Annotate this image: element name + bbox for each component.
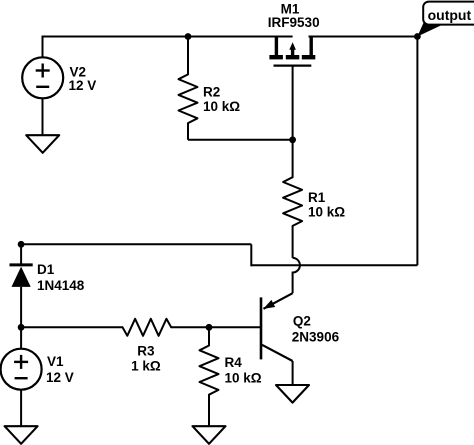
svg-text:12 V: 12 V <box>69 78 97 93</box>
ground below V2 <box>26 135 59 153</box>
svg-text:2N3906: 2N3906 <box>292 330 340 345</box>
svg-text:10 kΩ: 10 kΩ <box>308 204 345 219</box>
svg-text:V1: V1 <box>47 354 64 369</box>
node junction R3/R4/base <box>206 324 213 331</box>
label D1 1N4148 <box>37 262 85 293</box>
svg-text:output: output <box>428 7 472 23</box>
node junction gate/R2 <box>289 136 296 143</box>
wire M1 drain to output node <box>309 36 418 38</box>
resistor R4 <box>200 327 219 426</box>
wire to D1 node <box>21 243 251 245</box>
wire V2 to ground <box>42 98 44 135</box>
svg-text:R3: R3 <box>137 344 155 359</box>
ground below Q2 <box>276 385 309 403</box>
resistor R1 (gate lead, zigzag, hop) <box>283 66 302 258</box>
svg-text:IRF9530: IRF9530 <box>268 15 320 30</box>
svg-text:12 V: 12 V <box>46 370 74 385</box>
svg-text:R2: R2 <box>203 84 220 99</box>
label R4 10k <box>225 355 262 386</box>
svg-text:10 kΩ: 10 kΩ <box>203 99 240 114</box>
label V2 12V <box>69 64 97 93</box>
diode D1 1N4148 <box>10 243 33 327</box>
wire node to Q2 base <box>209 326 260 328</box>
wire top rail from V2 to M1 source <box>43 36 293 38</box>
label V1 12V <box>46 354 74 385</box>
voltage source V1 <box>1 327 42 426</box>
ground below V1 <box>5 426 38 444</box>
svg-text:D1: D1 <box>37 262 55 277</box>
node output junction <box>414 33 421 40</box>
wire output node down right side <box>416 37 418 266</box>
resistor R3 <box>123 319 172 336</box>
wire bottom of right side run to left <box>251 264 417 266</box>
label R2 10k <box>203 84 240 114</box>
mosfet M1 IRF9530 <box>269 37 315 66</box>
voltage source V2 <box>22 36 63 99</box>
wire jog down <box>250 244 252 266</box>
ground below R4 <box>193 426 226 444</box>
svg-text:10 kΩ: 10 kΩ <box>225 371 262 386</box>
label R1 10k <box>308 190 345 219</box>
node junction at D1 cathode <box>18 241 25 248</box>
label R3 1k <box>131 344 161 374</box>
callout output flag <box>417 2 474 37</box>
svg-text:1 kΩ: 1 kΩ <box>131 359 161 374</box>
svg-text:R1: R1 <box>308 190 326 205</box>
svg-text:Q2: Q2 <box>293 314 311 329</box>
transistor Q2 2N3906 <box>261 293 293 385</box>
svg-text:1N4148: 1N4148 <box>37 278 85 293</box>
label M1 IRF9530 <box>268 2 320 30</box>
wire node to R3 <box>21 326 122 328</box>
node junction top rail / R2 <box>185 33 192 40</box>
svg-text:R4: R4 <box>225 355 243 370</box>
node junction V1/D1/R3 <box>18 324 25 331</box>
wire R2 bottom to M1 gate <box>188 139 293 141</box>
label Q2 2N3906 <box>292 314 340 345</box>
wire hop over output run <box>293 258 300 293</box>
wire R3 to node <box>171 326 209 328</box>
